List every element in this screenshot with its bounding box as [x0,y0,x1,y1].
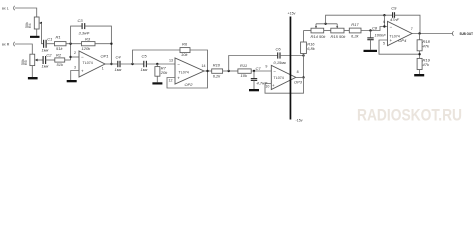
ground OP1 + input [67,80,77,82]
svg-text:1мк: 1мк [141,67,149,72]
wire R11 to OP3 top input [251,70,271,72]
svg-text:OP1: OP1 [101,54,109,59]
capacitor C5 1uF [141,54,149,73]
svg-text:+: + [177,75,180,80]
capacitor C4 1uF [115,54,123,72]
potentiometer R5 (R level) [21,54,38,65]
wire R17 to OP4 top input with jog [361,27,388,31]
svg-text:C2: C2 [46,53,52,58]
svg-text:R15 50k: R15 50k [331,34,347,39]
svg-text:50k: 50k [21,59,25,65]
junction C5/R7 [156,63,158,65]
ground wire pot R [31,66,33,77]
junction R3/C3 column [110,43,112,45]
wire OP2 bottom input to output (unity feedback) [167,71,208,88]
capacitor C1 [42,37,53,53]
capacitor C9 47nF [390,6,400,23]
svg-text:13: 13 [169,58,173,62]
junction OP4 output [418,32,420,34]
svg-text:51k: 51k [57,62,64,67]
svg-text:R1: R1 [56,35,61,40]
svg-text:7: 7 [411,27,413,31]
ground C8 [364,50,378,52]
wire node A up to R6 feedback rail [133,50,181,64]
svg-text:SUB OUT: SUB OUT [460,32,474,36]
svg-text:OP2: OP2 [185,82,194,87]
wire C5 to OP2 top input [146,63,176,65]
svg-text:6,2k: 6,2k [351,34,360,39]
wire OP4 output to connector [412,33,453,35]
wire pot L wiper down to C1 [42,23,44,44]
resistor R11 10k [238,63,251,78]
svg-text:6,8k: 6,8k [307,46,316,51]
resistor R1 [55,35,67,52]
power rail line [290,17,292,120]
svg-text:C6: C6 [276,46,282,51]
op-amp OP4 [383,20,413,46]
wire C4 to node A and C5 [120,63,144,65]
svg-text:6,2k: 6,2k [213,74,222,79]
potentiometer R15 50k [331,24,347,39]
capacitor C2 [42,53,53,69]
wire C9 to OP4 output column [395,15,421,33]
connector In R [14,42,15,46]
wire wiper rail [316,23,337,25]
wire node to OP1 inverting input [71,56,79,58]
potentiometer R14 50k [311,24,327,39]
svg-text:−: − [273,69,276,74]
svg-text:3,3нФ: 3,3нФ [79,31,91,36]
capacitor C8 100nF [367,26,386,50]
junction C6/R16 column [302,54,304,56]
svg-text:47k: 47k [423,44,430,49]
svg-text:R11: R11 [240,63,247,68]
wire C3 feedback loop [71,26,82,44]
svg-text:R17: R17 [351,22,359,27]
svg-text:C5: C5 [142,54,148,59]
capacitor C6 0.15uF feedback [274,46,288,65]
svg-text:+: + [81,68,84,73]
svg-text:10k: 10k [241,73,248,78]
junction R11/C7 [253,70,255,72]
svg-text:14: 14 [202,64,206,68]
svg-text:3: 3 [74,66,76,70]
junction divider node [418,53,420,55]
svg-text:12: 12 [169,79,173,83]
wire input L to pot [15,8,37,17]
svg-text:10: 10 [265,85,269,89]
junction C9 line / OP4 inverting column [383,14,385,16]
wire summing node column [70,44,72,60]
svg-text:8: 8 [297,70,299,74]
junction OP4 inverting input [383,25,385,27]
wire C3 right to feedback column [85,26,112,64]
junction R10/R11 node [228,70,230,72]
wire R14 to R15 [324,30,331,32]
svg-text:+15v: +15v [288,11,296,15]
resistor R16 6.8k [301,31,316,56]
svg-text:47k: 47k [423,62,430,67]
connector SUB OUT [452,31,453,35]
wire C6 to OP3 output column [280,55,304,57]
svg-text:OP3: OP3 [294,79,303,84]
ground R19 [414,74,424,76]
svg-text:C4: C4 [116,54,122,59]
resistor R6 10k [180,42,190,57]
svg-text:−: − [81,55,84,60]
resistor R7 20k [155,64,168,82]
capacitor C7 4.7nF [251,66,268,89]
svg-text:C1: C1 [47,37,52,42]
wire OP1 + input to ground [71,71,79,81]
svg-text:R10: R10 [213,63,221,68]
wire R6 to OP2 output column [190,50,208,71]
svg-text:5: 5 [383,41,385,45]
capacitor C3 3.3nF [78,18,91,35]
wire R16 top to pot row [304,30,312,32]
resistor R18 47k [417,34,431,59]
resistor R17 6.2k [349,22,361,39]
svg-text:TL074: TL074 [83,61,93,65]
svg-text:10k: 10k [181,52,188,57]
op-amp OP3 [265,65,302,90]
resistor R2 [55,52,65,66]
resistor R3 120k [82,37,96,51]
op-amp OP2 [169,58,206,87]
svg-text:2: 2 [74,51,76,55]
svg-text:-15v: -15v [296,119,303,123]
svg-text:C7: C7 [256,66,262,71]
svg-text:C9: C9 [391,6,397,11]
wire R3 to feedback column [95,43,111,45]
junction node inverting input OP1 [69,56,71,58]
wire OP3 bottom input to output (unity feedback) [265,77,304,93]
ground C7 [249,89,259,91]
wire OP3 output [296,76,304,78]
svg-text:R3: R3 [85,37,91,42]
wire OP1 output to C4 [105,63,117,65]
junction OP2 output [206,70,208,72]
svg-text:C8: C8 [372,26,378,31]
svg-text:RADIOSKOT.RU: RADIOSKOT.RU [357,106,462,125]
op-amp OP1 [74,51,109,77]
svg-text:20k: 20k [160,70,168,75]
wire pot R wiper to C2 [37,59,43,61]
svg-text:120k: 120k [82,46,92,51]
wire node up to C6 rail [229,56,278,72]
svg-text:вх R: вх R [2,43,10,47]
wire R2 to node column [65,59,71,61]
wire rail stub to C9 line [326,15,393,24]
svg-text:R2: R2 [56,52,62,57]
svg-text:TL074: TL074 [179,70,189,74]
junction C8 node [369,29,371,31]
svg-text:−: − [390,24,393,29]
svg-text:C3: C3 [78,18,84,23]
wire R1 to summing node and R3 [66,43,82,45]
svg-text:51k: 51k [56,46,63,51]
ground pot R [28,77,38,79]
wire R10 to R11 [223,70,238,72]
svg-text:9: 9 [265,65,267,69]
svg-text:−: − [177,62,180,67]
ground pot L [30,36,40,38]
potentiometer R4 (L level) [25,17,42,29]
svg-text:0,15мк: 0,15мк [274,60,288,65]
junction node R1/R3 [69,43,71,45]
connector In L [14,6,15,10]
wire input R to pot [15,44,32,54]
junction OP3 output [302,76,304,78]
svg-text:1мк: 1мк [115,67,123,72]
resistor R10 6.2k [212,63,223,79]
junction node A [131,63,133,65]
svg-text:100nF: 100nF [375,33,387,38]
ground wire pot L [36,29,38,36]
svg-text:1: 1 [102,67,104,71]
wire C2 to R2 [46,59,55,61]
svg-text:R14 50k: R14 50k [311,34,327,39]
svg-text:TL074: TL074 [274,76,284,80]
wire OP4 bottom input to divider node [379,40,420,54]
resistor R19 47k [417,57,431,74]
wire OP4 inverting input column [383,15,385,26]
svg-text:вх L: вх L [2,7,9,11]
svg-text:+: + [272,83,275,88]
wire column C6 node to OP3 output [303,56,305,78]
svg-text:6: 6 [383,20,385,24]
svg-text:50k: 50k [25,22,29,28]
svg-text:47nF: 47nF [390,17,400,22]
wire C1 to R1 [46,43,54,45]
wire OP2 output [204,70,212,72]
wire R15 to R17 [344,30,349,32]
svg-text:OP4: OP4 [398,38,407,43]
ground R7 [152,82,162,84]
junction OP1 output [110,63,112,65]
junction wiper rail stub [324,23,326,25]
svg-text:R6: R6 [182,42,188,47]
svg-text:1мк: 1мк [42,64,50,69]
